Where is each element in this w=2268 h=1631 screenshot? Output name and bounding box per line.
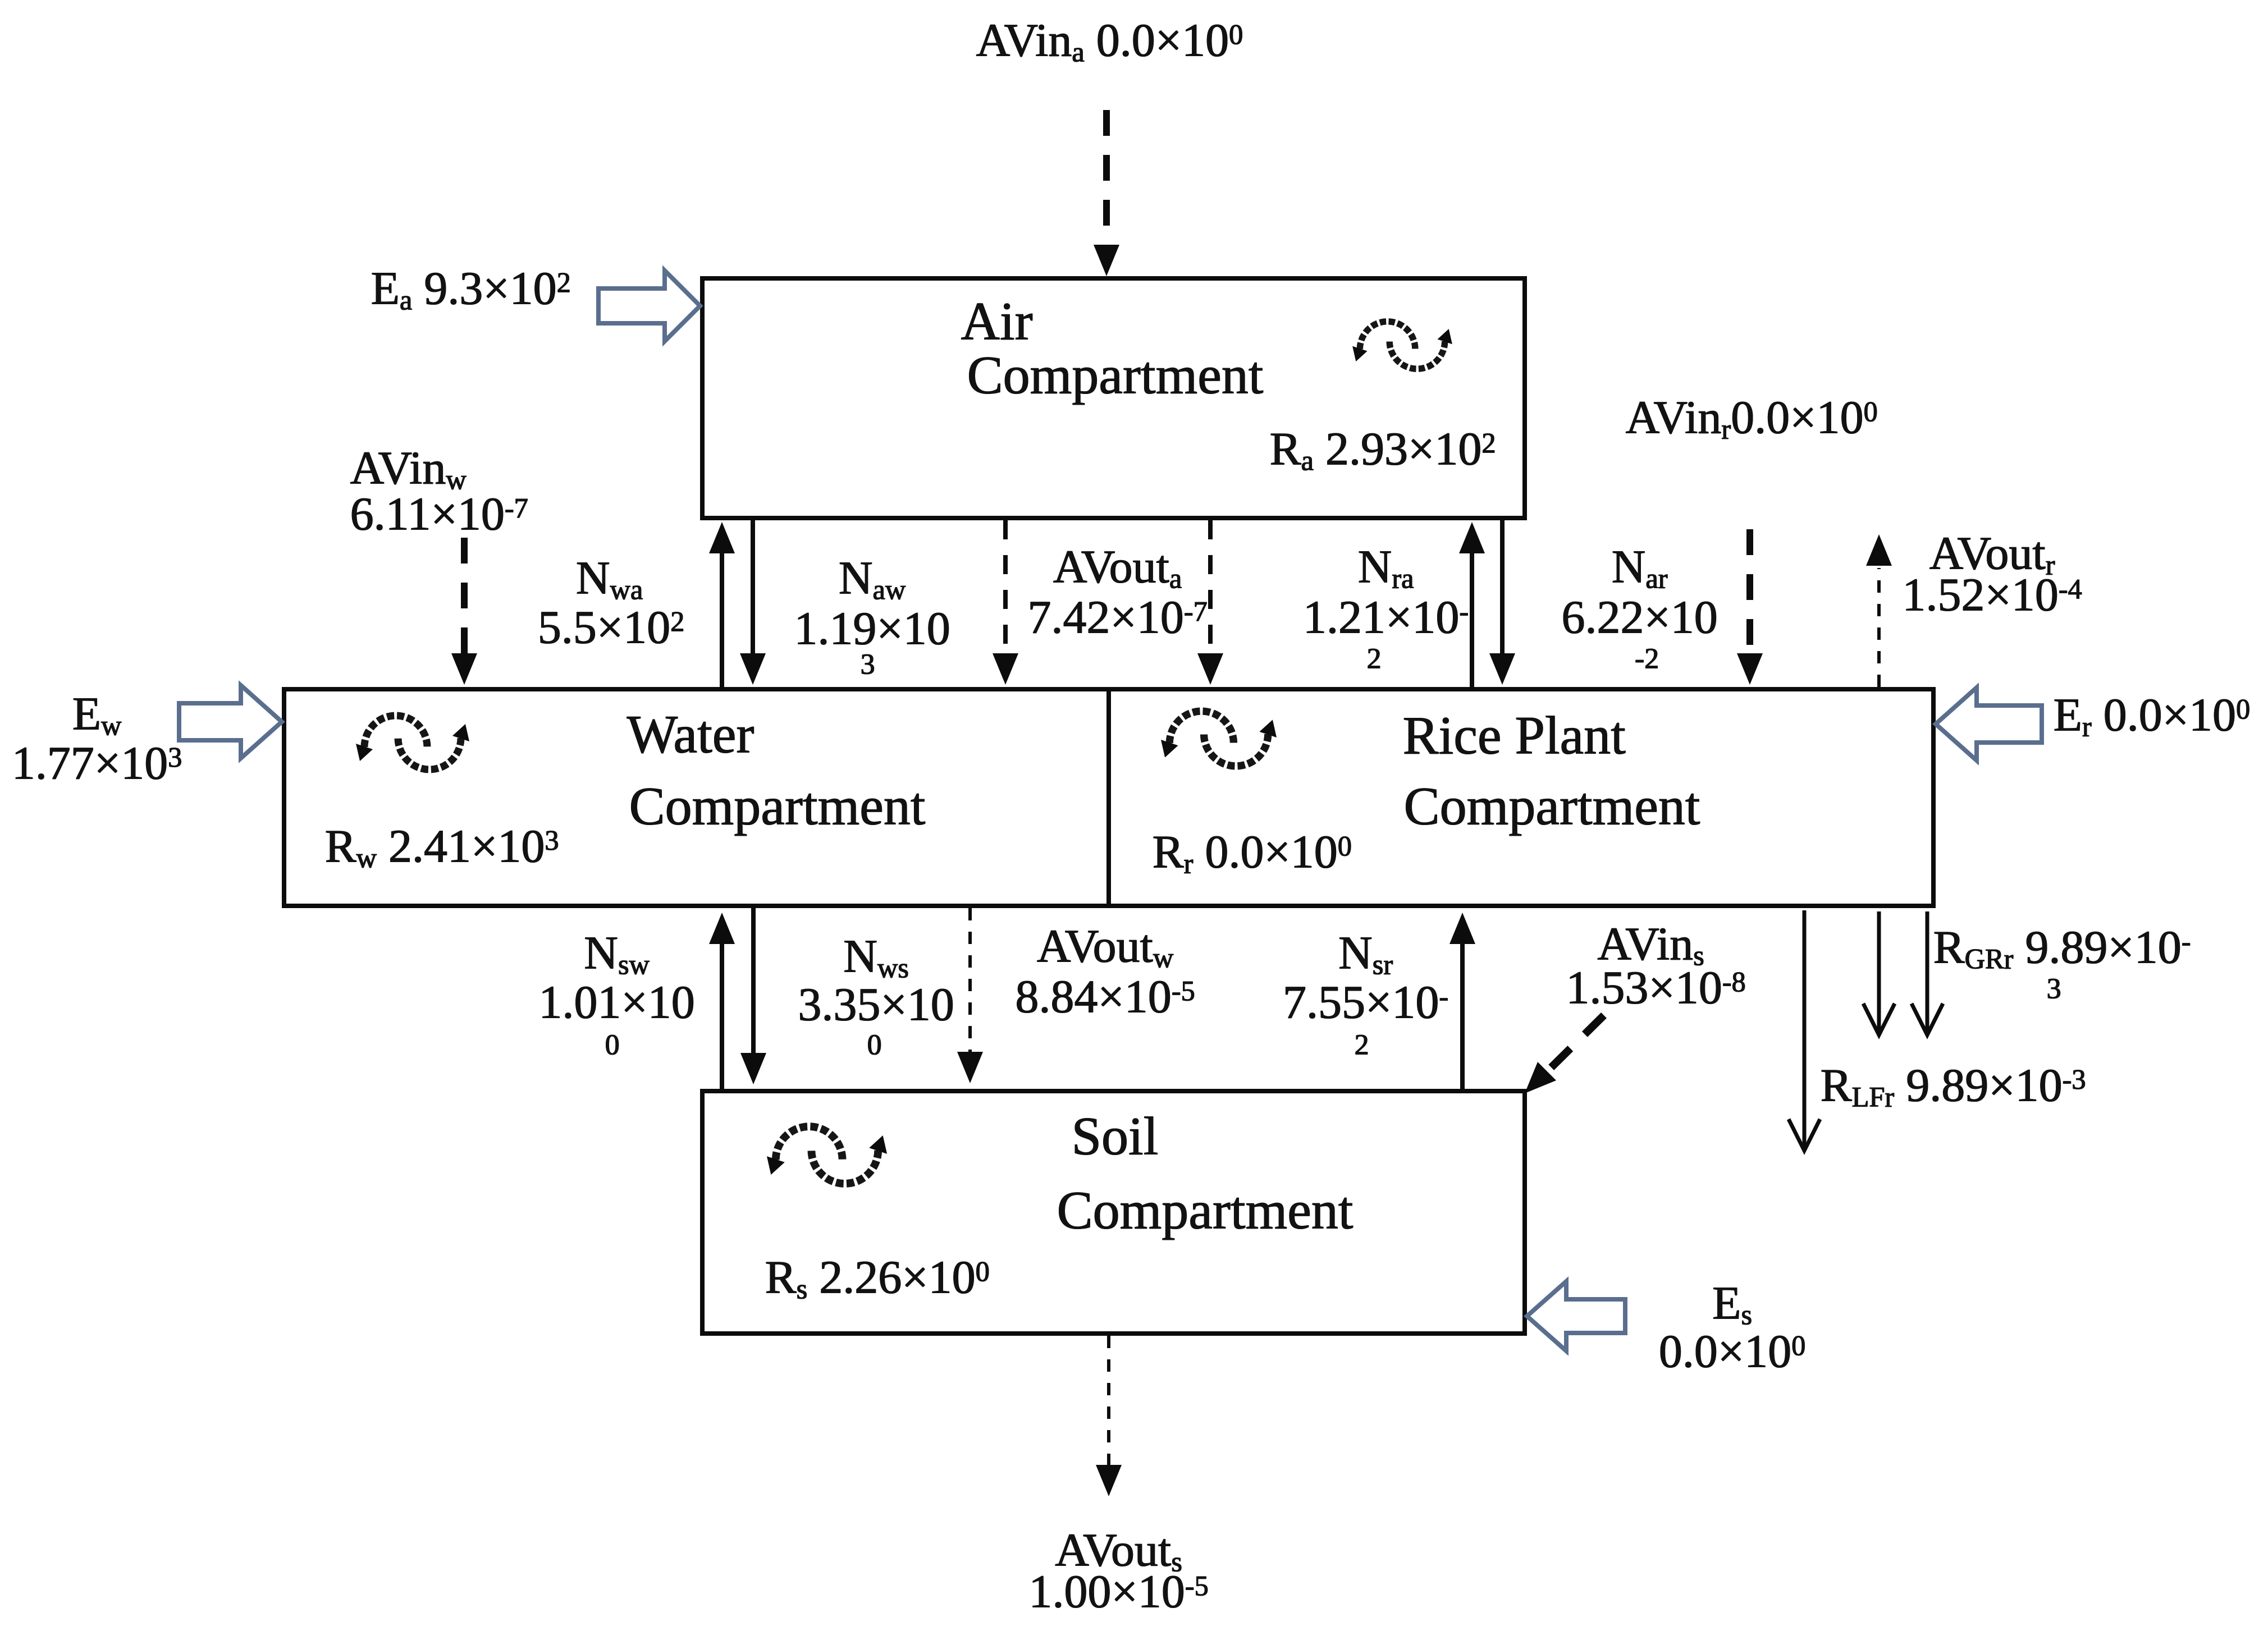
- arrow air to rice down: [1489, 520, 1515, 685]
- label AVin_a value: [976, 17, 1243, 64]
- label R_r value: [1152, 828, 1351, 876]
- label N_sw line3: [605, 1030, 619, 1060]
- label N_sw line2: [538, 979, 694, 1026]
- label AVout_r line1: [1929, 530, 2055, 577]
- arrow N_ra dashed air to rice down: [1197, 520, 1223, 685]
- water title line2: [629, 779, 925, 833]
- recycle icon rice: [1161, 711, 1277, 766]
- arrow R_GRr down 1: [1863, 911, 1895, 1035]
- arrow AVin_w dashed into water top: [451, 538, 477, 685]
- block arrow E_w into water left: [179, 685, 282, 758]
- label N_ra line3: [1366, 644, 1381, 674]
- arrow AVin_a dashed into air top: [1094, 110, 1119, 276]
- water compartment box: [284, 689, 1933, 906]
- label N_wa line1: [575, 555, 642, 602]
- label E_s line2: [1658, 1328, 1805, 1375]
- label AVout_w line1: [1036, 923, 1173, 970]
- block arrow E_a into air left: [598, 271, 700, 341]
- label N_sr line2: [1282, 979, 1448, 1026]
- label N_ra line2: [1302, 594, 1468, 641]
- label AVin_r value: [1625, 394, 1877, 441]
- label N_aw line1: [838, 555, 905, 602]
- label N_ws line2: [798, 981, 954, 1028]
- arrow AVout_w dashed water to soil down: [957, 908, 983, 1083]
- label N_ws line3: [867, 1030, 881, 1060]
- arrow R_LFr down from rice bottom: [1789, 910, 1820, 1151]
- label AVout_a line1: [1053, 543, 1181, 590]
- label AVout_a line2: [1027, 594, 1207, 641]
- water title line1: [627, 707, 754, 761]
- label E_a value: [371, 265, 570, 312]
- arrow N_aw air to water down: [740, 520, 766, 685]
- arrow N_sr soil to rice up: [1449, 913, 1475, 1089]
- recycle icon water: [356, 716, 469, 769]
- label R_GRr wrapped 3: [2046, 974, 2061, 1004]
- arrow AVin_r dashed into rice top: [1737, 529, 1763, 685]
- air title line1: [961, 294, 1032, 348]
- label N_sr line3: [1354, 1030, 1369, 1060]
- label E_w line1: [72, 690, 121, 737]
- label R_LFr value: [1820, 1062, 2086, 1109]
- label E_s line1: [1712, 1280, 1752, 1327]
- label R_w value: [324, 823, 559, 870]
- soil compartment box: [702, 1091, 1525, 1334]
- label R_s value: [765, 1254, 989, 1301]
- arrow AVout_a dashed air to water down: [993, 520, 1018, 685]
- label N_ar line1: [1611, 543, 1667, 590]
- label N_wa line2: [537, 604, 684, 651]
- arrow N_sw soil to water up: [709, 913, 735, 1089]
- label E_w line2: [11, 740, 182, 787]
- rice title line2: [1403, 779, 1700, 833]
- label AVout_r line2: [1902, 571, 2082, 619]
- soil title line1: [1071, 1109, 1158, 1163]
- label N_ws line1: [843, 933, 909, 980]
- label N_ra line1: [1357, 543, 1414, 590]
- arrow AVout_r dashed rice to up: [1866, 534, 1892, 687]
- recycle icon soil: [767, 1126, 887, 1184]
- label AVout_s line1: [1055, 1527, 1182, 1574]
- recycle icon air: [1352, 322, 1452, 369]
- arrow N_ar rice to air up: [1459, 522, 1485, 687]
- label N_aw line2: [794, 605, 950, 652]
- label AVin_w line1: [350, 445, 466, 492]
- block arrow E_s into soil right: [1527, 1281, 1625, 1351]
- label N_ar line3: [1634, 644, 1658, 674]
- arrow N_wa water to air up: [709, 522, 735, 687]
- label R_GRr value: [1933, 924, 2191, 971]
- air title line2: [967, 348, 1263, 402]
- label N_sw line1: [584, 929, 650, 977]
- label E_r value: [2053, 691, 2250, 739]
- arrow AVout_s dashed soil to down: [1096, 1336, 1122, 1496]
- label R_a value: [1269, 425, 1496, 473]
- label N_ar line2: [1561, 594, 1717, 641]
- label AVout_w line2: [1015, 973, 1195, 1020]
- arrow N_ws water to soil down: [740, 908, 766, 1084]
- label N_sr line1: [1338, 929, 1392, 977]
- soil title line2: [1057, 1183, 1353, 1237]
- rice title line1: [1402, 708, 1625, 762]
- rice plant compartment box divider: [1106, 689, 1111, 906]
- arrow AVin_s heavy dashed diagonal into soil top right: [1525, 1015, 1604, 1093]
- label AVout_s line2: [1028, 1568, 1208, 1615]
- label N_aw line3: [860, 650, 875, 679]
- block arrow E_r into rice right: [1936, 688, 2042, 760]
- label AVin_w line2: [350, 491, 528, 538]
- air compartment box: [702, 278, 1525, 518]
- label AVin_s line1: [1597, 920, 1704, 968]
- arrow R_GRr down 2: [1912, 911, 1943, 1035]
- label AVin_s line2: [1566, 964, 1745, 1011]
